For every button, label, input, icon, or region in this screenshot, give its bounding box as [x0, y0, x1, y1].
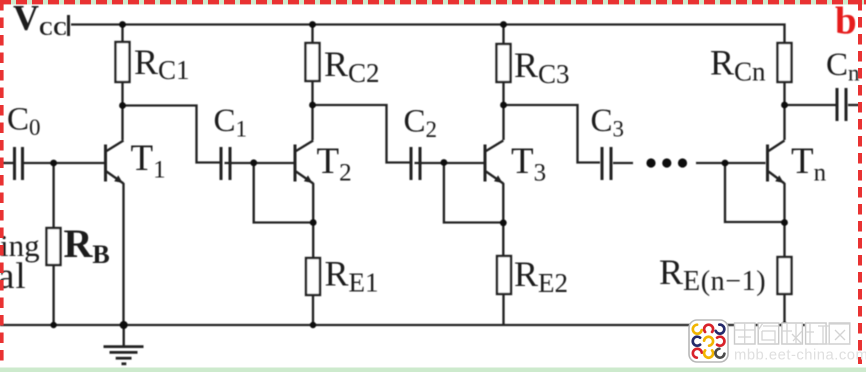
svg-text:Cn: Cn	[826, 47, 860, 86]
svg-text:RCn: RCn	[710, 43, 766, 87]
svg-text:RC2: RC2	[324, 44, 380, 88]
svg-text:RB: RB	[64, 221, 110, 269]
svg-text:RE2: RE2	[514, 254, 568, 298]
svg-text:RE1: RE1	[325, 254, 379, 298]
svg-text:b: b	[835, 0, 857, 43]
svg-text:RC3: RC3	[514, 45, 570, 89]
svg-text:Tn: Tn	[791, 141, 827, 187]
svg-text:T2: T2	[317, 141, 352, 187]
svg-text:C2: C2	[404, 104, 438, 143]
svg-text:VCC: VCC	[13, 0, 67, 40]
svg-text:al: al	[0, 256, 27, 297]
svg-text:C3: C3	[591, 103, 625, 142]
svg-text:T1: T1	[131, 138, 166, 184]
svg-text:RC1: RC1	[134, 42, 190, 85]
svg-text:C1: C1	[214, 103, 248, 142]
svg-text:C0: C0	[7, 102, 41, 141]
svg-text:mbb.eet-china.com: mbb.eet-china.com	[734, 348, 866, 364]
svg-text:RE(n−1): RE(n−1)	[659, 252, 766, 297]
svg-text:T3: T3	[511, 141, 546, 187]
